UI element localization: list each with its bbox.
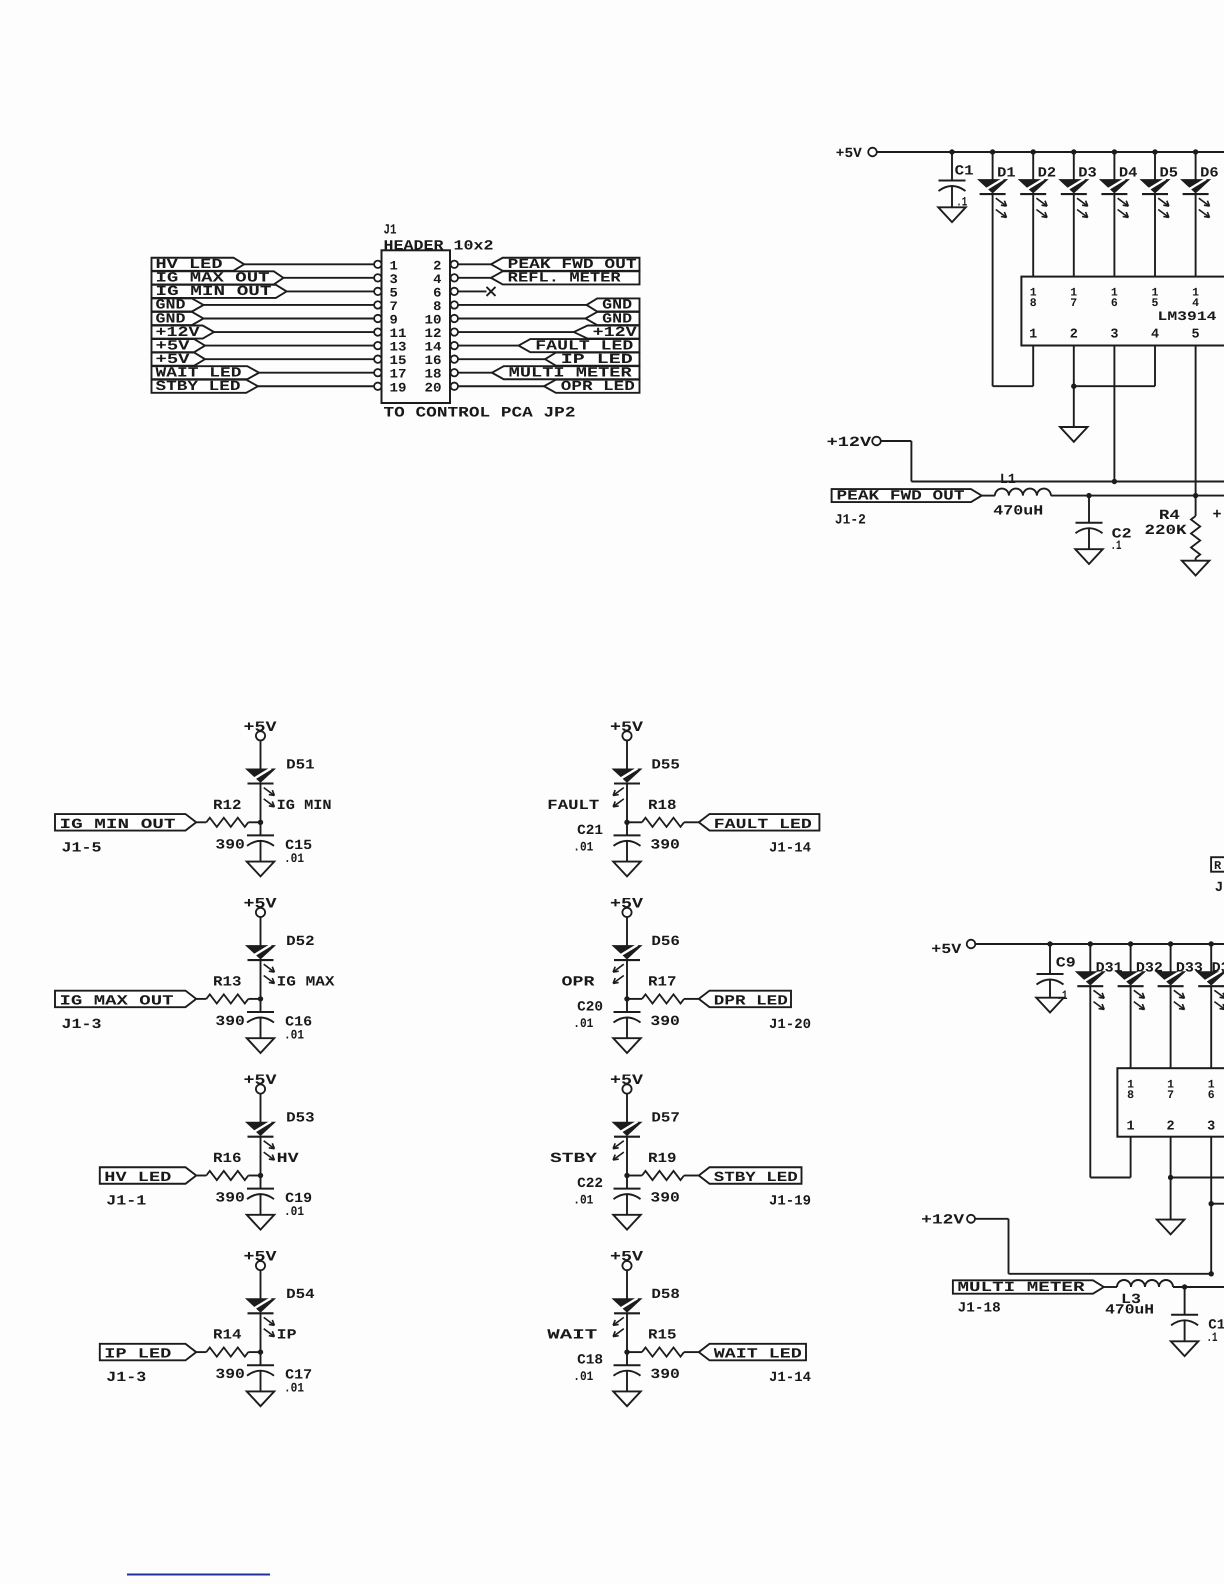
svg-text:D34: D34	[1212, 961, 1224, 977]
svg-text:R13: R13	[213, 974, 242, 990]
svg-text:D1: D1	[997, 166, 1016, 182]
svg-text:390: 390	[650, 837, 680, 853]
svg-text:390: 390	[650, 1191, 680, 1207]
svg-text:.01: .01	[284, 1204, 304, 1219]
svg-text:IG MAX OUT: IG MAX OUT	[60, 993, 174, 1009]
svg-text:.01: .01	[284, 1027, 304, 1042]
svg-text:OPR: OPR	[562, 974, 596, 990]
svg-text:D3: D3	[1078, 166, 1097, 182]
svg-text:390: 390	[650, 1367, 680, 1383]
svg-text:WAIT: WAIT	[547, 1328, 597, 1344]
svg-text:L1: L1	[1000, 472, 1016, 488]
svg-text:+: +	[1213, 507, 1222, 524]
svg-text:IP: IP	[277, 1328, 297, 1344]
svg-text:C20: C20	[577, 999, 603, 1015]
svg-text:J1-14: J1-14	[769, 1370, 811, 1386]
svg-text:LM3914: LM3914	[1158, 309, 1217, 324]
svg-text:J1-18: J1-18	[958, 1301, 1001, 1317]
svg-text:D58: D58	[651, 1287, 680, 1303]
svg-text:J: J	[1215, 880, 1223, 896]
svg-text:C22: C22	[577, 1176, 603, 1192]
svg-text:DPR LED: DPR LED	[714, 993, 788, 1009]
svg-text:HEADER 10x2: HEADER 10x2	[384, 239, 494, 255]
svg-text:.01: .01	[573, 1369, 593, 1384]
svg-text:3: 3	[1110, 328, 1118, 343]
svg-text:6: 6	[1208, 1089, 1215, 1102]
svg-text:STBY: STBY	[550, 1151, 598, 1167]
svg-text:4: 4	[1151, 328, 1159, 343]
svg-text:J1-3: J1-3	[62, 1017, 102, 1033]
svg-text:7: 7	[1167, 1089, 1174, 1102]
svg-text:C18: C18	[577, 1353, 603, 1369]
svg-text:IG MAX: IG MAX	[277, 974, 336, 990]
svg-text:D2: D2	[1038, 166, 1057, 182]
svg-text:J1-2: J1-2	[835, 513, 866, 529]
svg-text:D6: D6	[1200, 166, 1219, 182]
svg-text:+12V: +12V	[827, 435, 872, 451]
svg-text:D56: D56	[651, 934, 680, 950]
svg-text:STBY LED: STBY LED	[714, 1170, 798, 1186]
svg-text:R15: R15	[648, 1328, 677, 1344]
svg-text:D54: D54	[286, 1287, 315, 1303]
svg-text:390: 390	[215, 1014, 245, 1030]
svg-text:IG MIN: IG MIN	[277, 798, 332, 814]
svg-text:390: 390	[215, 1367, 245, 1383]
svg-text:STBY LED: STBY LED	[156, 379, 241, 395]
svg-text:19: 19	[390, 380, 407, 395]
svg-text:MULTI METER: MULTI METER	[958, 1280, 1086, 1296]
svg-text:R: R	[1214, 859, 1222, 873]
svg-text:C9: C9	[1056, 956, 1076, 972]
svg-text:FAULT: FAULT	[547, 798, 599, 814]
svg-text:390: 390	[215, 1191, 245, 1207]
svg-text:.01: .01	[573, 839, 593, 854]
svg-text:J1-1: J1-1	[106, 1194, 146, 1210]
svg-text:R17: R17	[648, 974, 677, 990]
svg-text:D5: D5	[1160, 166, 1179, 182]
svg-text:WAIT LED: WAIT LED	[714, 1347, 802, 1363]
svg-text:HV: HV	[277, 1151, 300, 1167]
svg-text:R14: R14	[213, 1328, 242, 1344]
svg-text:R18: R18	[648, 798, 677, 814]
svg-text:D4: D4	[1119, 166, 1138, 182]
svg-text:390: 390	[215, 837, 245, 853]
svg-text:.1: .1	[1207, 1330, 1218, 1345]
svg-text:470uH: 470uH	[1105, 1303, 1154, 1319]
svg-text:8: 8	[1030, 297, 1037, 310]
svg-text:REFL. METER: REFL. METER	[508, 271, 622, 287]
svg-text:.1: .1	[956, 195, 967, 210]
svg-text:OPR LED: OPR LED	[561, 379, 635, 395]
svg-text:470uH: 470uH	[993, 504, 1043, 520]
svg-text:J1-19: J1-19	[769, 1194, 811, 1210]
svg-text:2: 2	[1070, 328, 1078, 343]
svg-text:C21: C21	[577, 823, 603, 839]
svg-text:J1-5: J1-5	[62, 840, 102, 856]
svg-text:D53: D53	[286, 1111, 315, 1127]
svg-text:R4: R4	[1159, 508, 1180, 524]
svg-text:+12V: +12V	[921, 1213, 965, 1229]
svg-text:C1: C1	[955, 164, 974, 180]
svg-text:1: 1	[1127, 1120, 1135, 1135]
svg-text:1: 1	[1029, 328, 1037, 343]
svg-text:TO CONTROL PCA JP2: TO CONTROL PCA JP2	[384, 406, 576, 422]
svg-text:IG MIN OUT: IG MIN OUT	[60, 817, 176, 833]
svg-text:3: 3	[1207, 1120, 1215, 1135]
svg-text:.01: .01	[573, 1016, 593, 1031]
svg-text:J1: J1	[384, 223, 397, 239]
svg-text:D51: D51	[286, 757, 315, 773]
svg-text:.01: .01	[284, 851, 304, 866]
svg-text:6: 6	[1111, 297, 1118, 310]
svg-text:20: 20	[425, 380, 442, 395]
svg-text:5: 5	[1192, 328, 1200, 343]
svg-text:+5V: +5V	[931, 942, 962, 958]
svg-text:390: 390	[650, 1014, 680, 1030]
svg-text:D52: D52	[286, 934, 315, 950]
svg-text:D57: D57	[651, 1111, 680, 1127]
svg-text:220K: 220K	[1145, 523, 1188, 539]
svg-text:J1-14: J1-14	[769, 840, 811, 856]
svg-text:+5V: +5V	[836, 146, 863, 162]
svg-text:.1: .1	[1111, 538, 1122, 553]
svg-text:.01: .01	[573, 1193, 593, 1208]
svg-text:7: 7	[1070, 297, 1077, 310]
svg-text:.1: .1	[1057, 988, 1068, 1003]
svg-text:.01: .01	[284, 1381, 304, 1396]
svg-text:2: 2	[1167, 1120, 1175, 1135]
svg-text:J1-20: J1-20	[769, 1017, 811, 1033]
svg-text:PEAK FWD OUT: PEAK FWD OUT	[837, 488, 965, 504]
svg-text:R16: R16	[213, 1151, 242, 1167]
svg-text:8: 8	[1127, 1089, 1134, 1102]
svg-text:D55: D55	[651, 757, 680, 773]
svg-text:R19: R19	[648, 1151, 677, 1167]
svg-text:J1-3: J1-3	[106, 1370, 146, 1386]
svg-text:FAULT LED: FAULT LED	[714, 817, 812, 833]
svg-text:R12: R12	[213, 798, 242, 814]
svg-text:HV LED: HV LED	[104, 1170, 171, 1186]
svg-text:IP LED: IP LED	[104, 1347, 171, 1363]
